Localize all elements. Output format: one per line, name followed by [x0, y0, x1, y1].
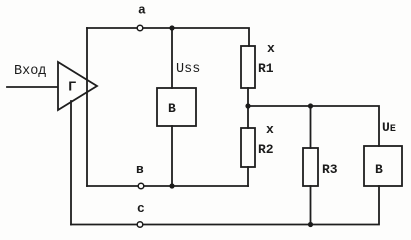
svg-text:x: x: [267, 41, 275, 56]
wire node в line: [87, 185, 248, 187]
node junction dot at Uss tap on top wire: [169, 25, 174, 30]
wire top node a line: [87, 28, 249, 46]
op-amp Г generator triangle: [58, 62, 97, 110]
wire Uss tap down to box: [171, 28, 173, 88]
resistor R1: [241, 46, 255, 88]
wire vertical through triangle from top wire to node в line: [86, 28, 88, 186]
wire R3 top lead: [310, 106, 312, 148]
svg-text:Uss: Uss: [176, 62, 200, 77]
resistor R3: [303, 148, 318, 186]
wire node c bottom line: [71, 186, 379, 225]
wire R2 top lead: [247, 106, 249, 128]
wire R3 bottom lead: [310, 186, 312, 225]
svg-text:R2: R2: [258, 142, 274, 157]
node c terminal circle: [137, 222, 143, 228]
wire input line: [7, 86, 57, 88]
svg-text:R1: R1: [258, 61, 274, 76]
svg-text:c: c: [137, 201, 145, 216]
svg-text:в: в: [136, 162, 144, 177]
wire Uss box bottom to node в line: [171, 126, 173, 186]
svg-text:В: В: [375, 162, 383, 177]
node a terminal circle: [137, 25, 143, 31]
svg-text:Г: Г: [68, 80, 76, 96]
node junction dot R1/R2 mid wire: [245, 103, 250, 108]
svg-text:a: a: [138, 3, 146, 18]
wire R2 bottom lead to node в line: [247, 167, 249, 186]
svg-text:R3: R3: [322, 162, 338, 177]
resistor R2: [241, 128, 255, 167]
node junction dot R3 bottom on c line: [308, 222, 313, 227]
voltmeter U1 box B (Uss): [157, 88, 196, 126]
svg-text:x: x: [266, 122, 274, 137]
svg-text:В: В: [168, 101, 176, 116]
voltmeter U2 box B (UE): [364, 146, 402, 186]
wire vertical from triangle lower edge to node c line: [70, 101, 72, 225]
node в terminal circle: [138, 183, 144, 189]
node junction dot R3 top: [308, 103, 313, 108]
svg-text:Вход: Вход: [14, 64, 46, 79]
wire R1 bottom lead: [247, 88, 249, 106]
node junction dot Uss bottom on в line: [169, 183, 174, 188]
wire middle node line: [248, 106, 379, 146]
